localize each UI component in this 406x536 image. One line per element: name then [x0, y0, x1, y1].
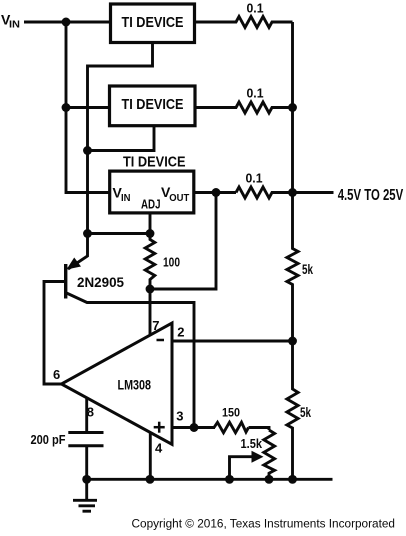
regulator U1 TI DEVICE box: [111, 4, 195, 43]
pot wiper arrow: [252, 451, 264, 463]
regulator U3 TI DEVICE box: [110, 171, 194, 213]
svg-text:7: 7: [152, 318, 159, 333]
wire ground bus: [87, 478, 333, 481]
pin label U3 VIN: [113, 185, 131, 204]
junction pin3 / collector line: [190, 423, 199, 432]
svg-text:IN: IN: [9, 19, 20, 31]
wire R7 to pot top: [249, 428, 270, 431]
potentiometer R8 1.5k body: [264, 430, 275, 479]
transistor Q1 emitter arrow: [67, 258, 82, 270]
junction pin2 wire / rail: [288, 337, 297, 346]
transistor Q1 base bar: [64, 264, 67, 299]
svg-text:LM308: LM308: [118, 377, 152, 393]
svg-text:5k: 5k: [300, 404, 311, 420]
resistor R3 0.1: [236, 187, 293, 198]
junction output node: [288, 188, 297, 197]
wire feedback VOUT down-left to R4 bottom: [150, 193, 216, 290]
svg-text:2N2905: 2N2905: [77, 274, 124, 290]
resistor R2 0.1: [196, 102, 293, 113]
label plus input: [154, 422, 165, 433]
junction U3 VOUT / feedback: [212, 188, 221, 197]
op-amp U4 LM308 triangle: [61, 323, 172, 444]
node VIN label: [1, 12, 20, 31]
junction ground / pin4: [146, 475, 155, 484]
transistor Q1 2N2905 emitter wire: [68, 234, 88, 270]
junction VIN rail top: [62, 18, 71, 27]
junction ground / pot: [265, 475, 274, 484]
junction R4 top: [146, 229, 155, 238]
svg-text:5k: 5k: [302, 261, 313, 277]
wire pin 3 lead: [172, 426, 215, 429]
svg-text:TI DEVICE: TI DEVICE: [122, 15, 184, 31]
ground symbol: [73, 479, 97, 511]
svg-text:0.1: 0.1: [247, 86, 264, 101]
svg-text:1.5k: 1.5k: [241, 436, 263, 451]
svg-text:OUT: OUT: [169, 192, 190, 204]
svg-text:0.1: 0.1: [247, 1, 264, 16]
label minus input: [157, 339, 165, 342]
svg-text:TI DEVICE: TI DEVICE: [122, 97, 184, 113]
wire emitter node to R4 top: [88, 232, 151, 235]
svg-text:TI DEVICE: TI DEVICE: [123, 154, 186, 170]
wire cap to ground rail: [85, 446, 88, 480]
svg-text:6: 6: [53, 367, 60, 382]
svg-text:0.1: 0.1: [246, 170, 263, 185]
wire Q1 base to op-amp output: [44, 282, 64, 385]
capacitor C1 200 pF top plate: [68, 431, 103, 434]
wire pin 2 to output rail: [172, 340, 293, 343]
junction adj rail bottom / emitter node: [83, 229, 92, 238]
wire output stub: [293, 191, 334, 194]
resistor R6 5k lower: [287, 341, 298, 479]
wire VIN lead: [24, 21, 110, 24]
resistor R1 0.1: [196, 17, 293, 28]
svg-text:3: 3: [176, 409, 183, 424]
resistor R5 5k upper: [287, 193, 298, 342]
resistor R4 100: [145, 234, 155, 290]
regulator U2 TI DEVICE box: [110, 86, 196, 126]
svg-text:200 pF: 200 pF: [31, 433, 66, 447]
wire pin 4 down: [149, 433, 152, 480]
resistor R7 150: [214, 422, 249, 432]
junction VIN rail / U2 feed: [62, 103, 71, 112]
wire output rail R2 to R3: [291, 108, 294, 193]
svg-text:4.5V TO 25V: 4.5V TO 25V: [338, 187, 404, 204]
wire pin 7 supply: [149, 289, 152, 336]
pot wiper wire: [230, 457, 254, 480]
junction adj rail / U2 adj: [83, 146, 92, 155]
svg-text:Copyright © 2016, Texas Instru: Copyright © 2016, Texas Instruments Inco…: [132, 517, 396, 531]
junction output rail / R2: [288, 103, 297, 112]
svg-text:ADJ: ADJ: [141, 198, 161, 212]
svg-text:150: 150: [222, 406, 240, 420]
junction ground / cap: [82, 475, 91, 484]
svg-text:IN: IN: [121, 192, 131, 204]
wire U3 ADJ stub: [149, 213, 152, 234]
wire VIN rail to U2 input: [66, 106, 109, 109]
svg-text:2: 2: [177, 324, 184, 339]
wire Q1 collector: [67, 293, 195, 428]
wire VIN rail down to U3 input: [66, 22, 109, 193]
wire R1 to output rail: [291, 22, 294, 108]
pin label U3 VOUT: [161, 184, 190, 204]
wire U3 VOUT lead: [194, 191, 236, 194]
capacitor C1 bottom plate: [68, 444, 103, 447]
junction R4 bottom / feedback / pin7: [146, 285, 155, 294]
wire pin 8 to compensation cap: [85, 398, 88, 431]
junction ground / rail: [288, 475, 297, 484]
junction ground / wiper: [225, 475, 234, 484]
wire U2 ADJ to adj rail: [88, 125, 155, 151]
wire U1 ADJ to adj rail: [88, 43, 153, 233]
svg-text:100: 100: [163, 256, 180, 270]
svg-text:4: 4: [155, 441, 163, 456]
